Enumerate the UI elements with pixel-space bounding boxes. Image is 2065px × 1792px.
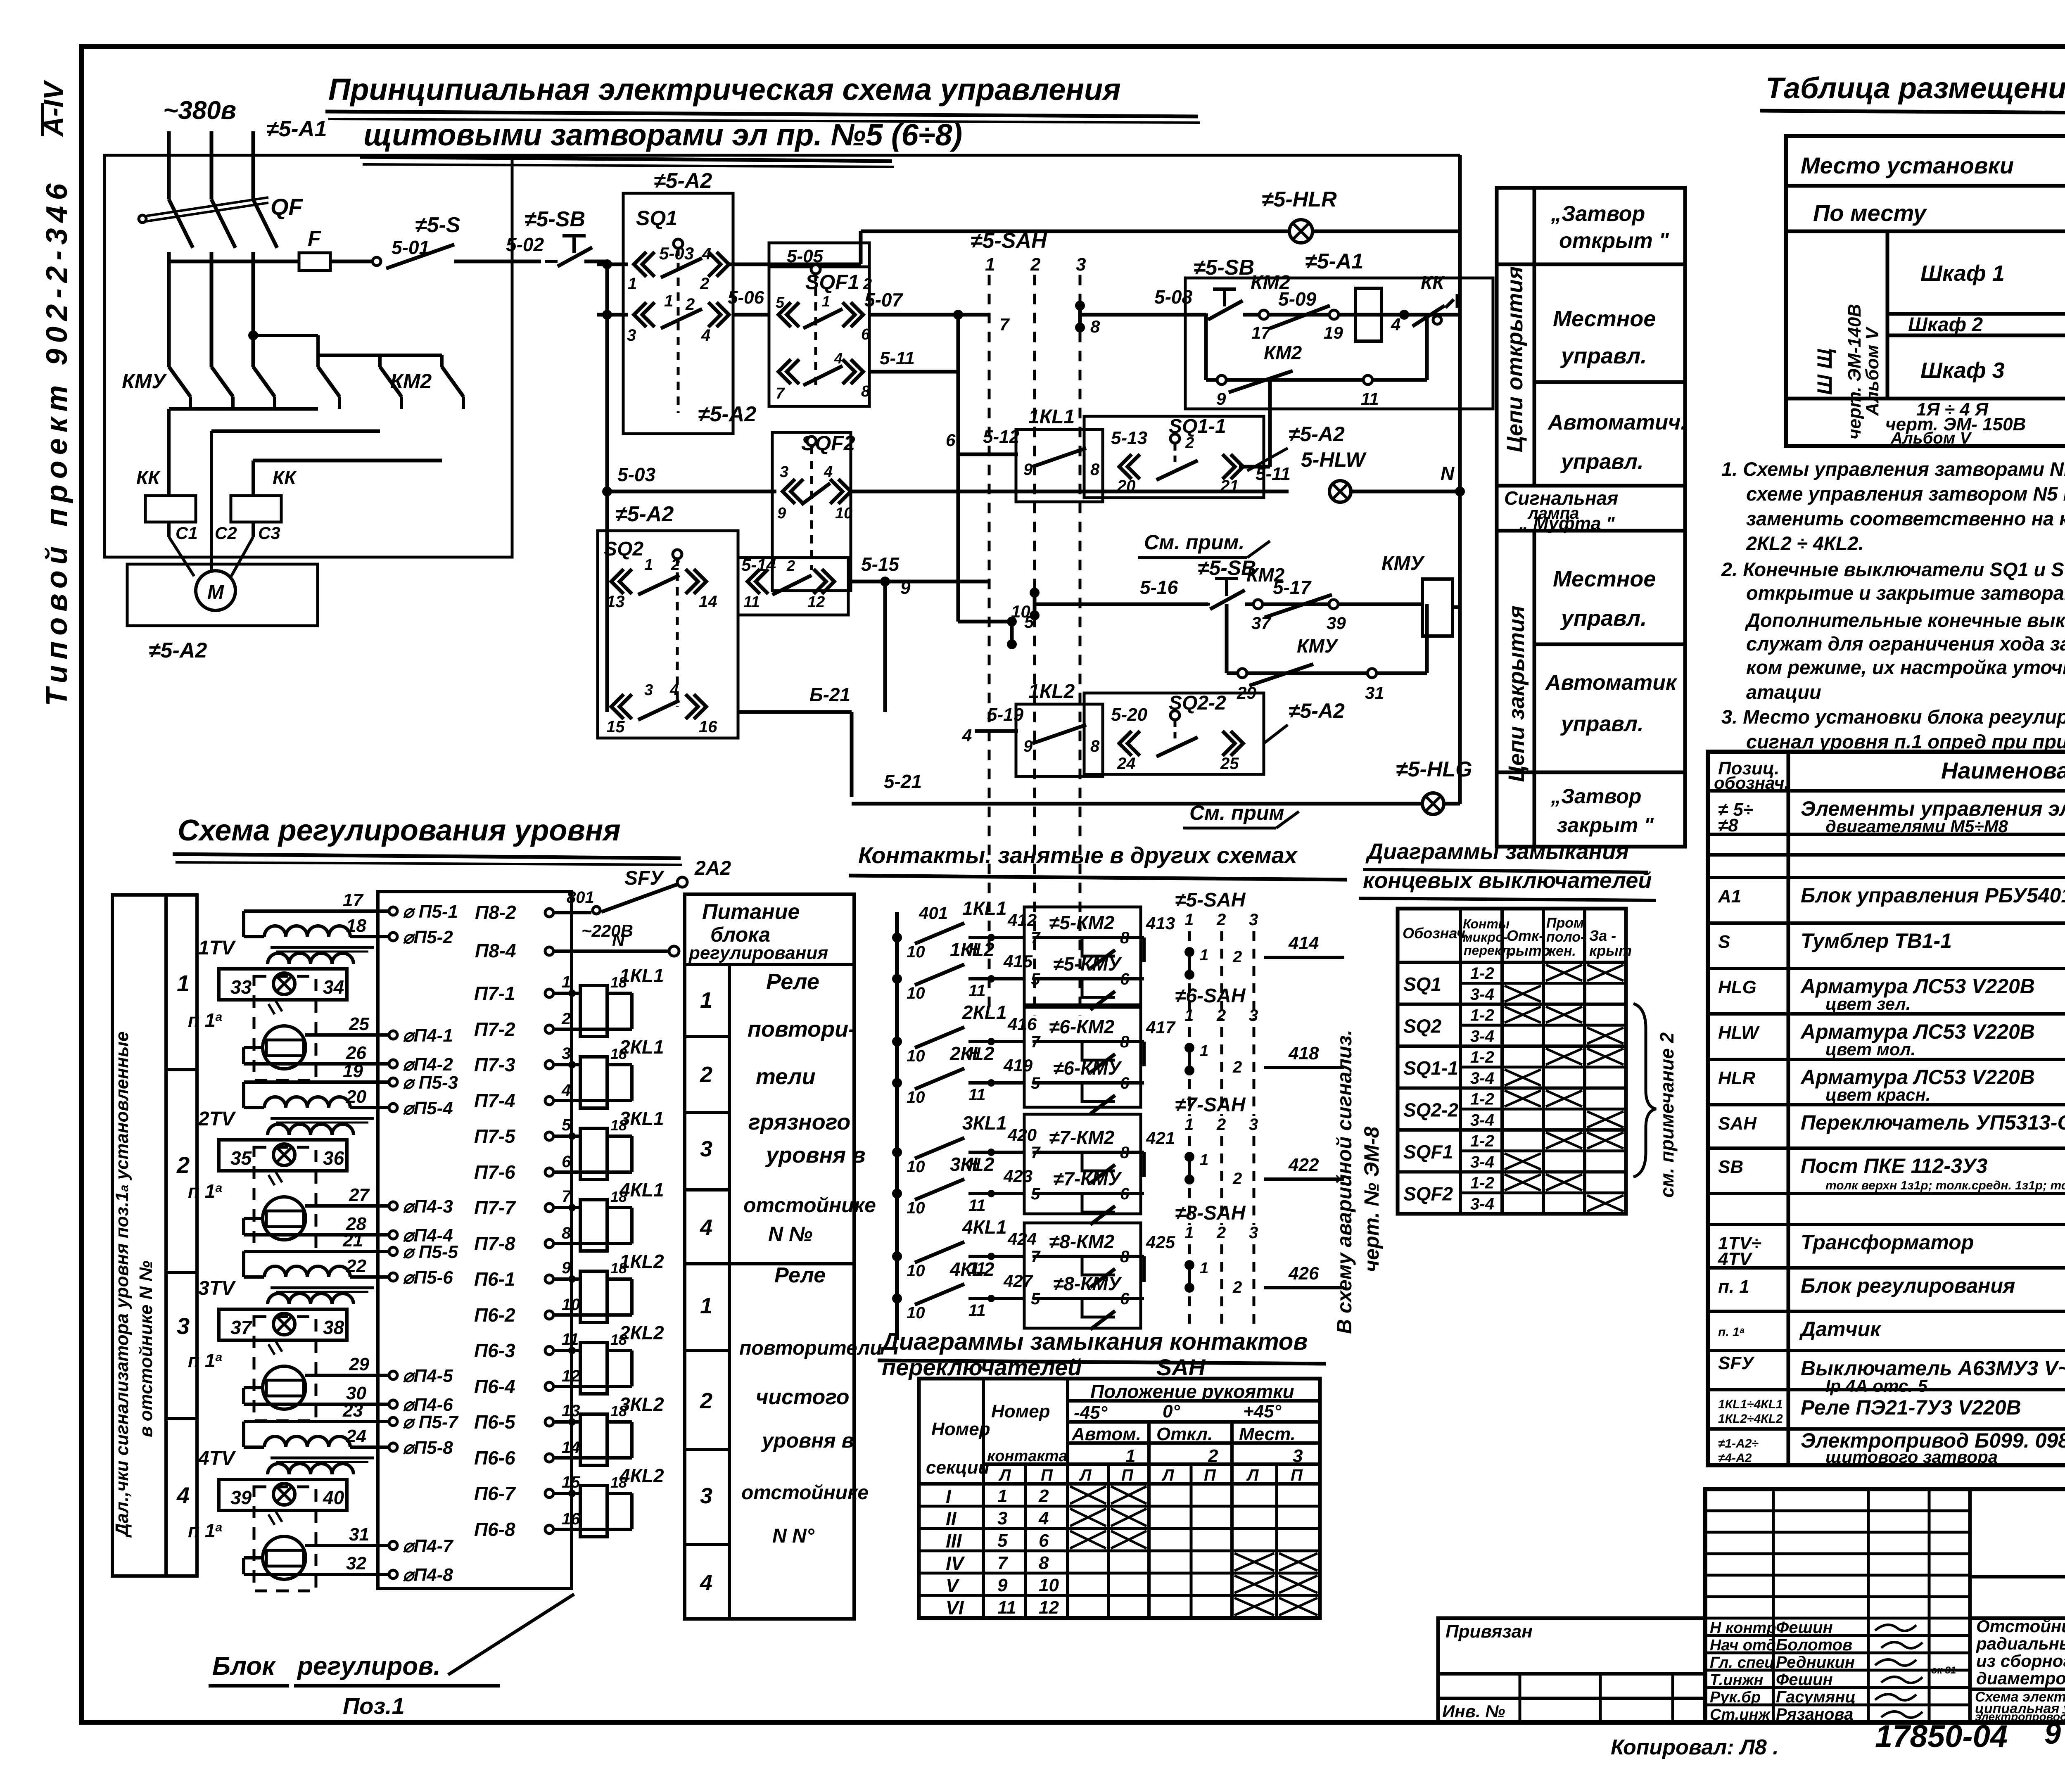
svg-text:За -: За - [1589, 927, 1616, 944]
svg-text:НLG: НLG [1718, 977, 1756, 997]
svg-text:КМУ: КМУ [1381, 553, 1425, 574]
svg-text:25: 25 [1220, 755, 1239, 773]
svg-text:2: 2 [1232, 1058, 1242, 1076]
svg-text:3КL2: 3КL2 [950, 1154, 995, 1175]
svg-text:Поз.1: Поз.1 [343, 1693, 405, 1719]
svg-text:1: 1 [1184, 1116, 1194, 1134]
svg-text:10: 10 [1039, 1575, 1059, 1595]
svg-text:39: 39 [230, 1487, 252, 1508]
svg-text:10: 10 [907, 1304, 925, 1322]
svg-text:„Затвор: „Затвор [1550, 785, 1641, 808]
equipment placement table [1786, 136, 2065, 446]
svg-text:≠5-A1: ≠5-A1 [1305, 249, 1363, 273]
svg-text:Мест.: Мест. [1239, 1424, 1296, 1444]
svg-text:П6-6: П6-6 [474, 1447, 515, 1469]
svg-text:37: 37 [230, 1317, 253, 1338]
wire left rail [605, 261, 609, 712]
svg-text:Схема регулирования уровня: Схема регулирования уровня [178, 814, 621, 847]
svg-text:П7-4: П7-4 [474, 1090, 515, 1111]
svg-text:1: 1 [985, 254, 995, 275]
svg-text:19: 19 [1324, 323, 1343, 342]
wire 5-09 with KMY contact [1243, 313, 1460, 317]
svg-text:черт. ЭМ-140В: черт. ЭМ-140В [1844, 304, 1865, 439]
svg-text:17: 17 [1251, 323, 1271, 342]
svg-text:тели: тели [756, 1064, 816, 1089]
svg-text:426: 426 [1288, 1263, 1319, 1284]
svg-text:5-07: 5-07 [864, 289, 903, 311]
svg-text:9: 9 [562, 1259, 571, 1277]
svg-text:КМ2: КМ2 [1264, 342, 1302, 363]
svg-text:в отстойнике N №: в отстойнике N № [136, 1260, 156, 1437]
svg-text:Типовой проект 902-2-346: Типовой проект 902-2-346 [40, 178, 74, 706]
svg-text:⌀П4-8: ⌀П4-8 [403, 1565, 453, 1585]
svg-text:Номер: Номер [991, 1401, 1050, 1422]
svg-text:Пост ПКЕ 112-3У3: Пост ПКЕ 112-3У3 [1801, 1154, 1988, 1177]
svg-text:11: 11 [743, 593, 760, 611]
svg-text:Автоматик: Автоматик [1545, 671, 1678, 695]
svg-text:3-4: 3-4 [1470, 985, 1494, 1004]
svg-text:SQ1-1: SQ1-1 [1403, 1057, 1458, 1079]
svg-text:16: 16 [699, 718, 717, 736]
svg-text:Автом.: Автом. [1071, 1424, 1141, 1444]
svg-text:4: 4 [1038, 1508, 1049, 1529]
svg-text:Отк-: Отк- [1507, 927, 1544, 944]
svg-text:18: 18 [346, 916, 366, 936]
svg-text:1-2: 1-2 [1470, 964, 1494, 983]
svg-text:схеме управления затвором N5: схеме управления затвором N5 Контакты ре… [1746, 483, 2065, 505]
svg-text:П: П [1041, 1466, 1053, 1484]
svg-text:3: 3 [1293, 1446, 1303, 1466]
wire 5-11 [851, 490, 1289, 494]
svg-text:37: 37 [1251, 613, 1271, 633]
svg-text:N №: N № [768, 1222, 812, 1246]
svg-text:9: 9 [2044, 1717, 2061, 1750]
svg-text:5: 5 [776, 294, 785, 311]
svg-text:2ТV: 2ТV [198, 1108, 236, 1130]
svg-text:регулиров.: регулиров. [297, 1652, 441, 1680]
svg-text:SQ1: SQ1 [636, 206, 677, 230]
svg-text:4: 4 [1391, 315, 1400, 334]
svg-text:4ТV: 4ТV [198, 1448, 236, 1469]
svg-text:регулирования: регулирования [688, 943, 828, 963]
svg-text:≠7-SАН: ≠7-SАН [1175, 1094, 1246, 1116]
svg-text:открыт ": открыт " [1559, 229, 1669, 253]
svg-text:SQ2: SQ2 [604, 538, 643, 560]
svg-text:Реле: Реле [774, 1263, 826, 1287]
lamp #5-HLR [1289, 220, 1313, 243]
svg-text:SFУ: SFУ [624, 867, 665, 889]
lamp #5-HLG [1422, 793, 1444, 814]
svg-text:П6-4: П6-4 [474, 1376, 515, 1397]
svg-text:Гасумянц: Гасумянц [1776, 1688, 1856, 1706]
svg-text:отстойнике: отстойнике [741, 1482, 869, 1504]
svg-text:Питание: Питание [702, 900, 800, 924]
svg-text:п. 1ᵃ: п. 1ᵃ [1718, 1325, 1745, 1339]
svg-text:≠5-НLG: ≠5-НLG [1396, 757, 1472, 781]
svg-text:1: 1 [664, 292, 673, 310]
svg-text:6: 6 [946, 430, 956, 450]
svg-text:7: 7 [997, 1553, 1009, 1573]
svg-text:С2: С2 [215, 523, 237, 543]
svg-text:черт. № ЭМ-8: черт. № ЭМ-8 [1360, 1126, 1383, 1272]
svg-text:3-4: 3-4 [1470, 1069, 1494, 1087]
svg-text:5-13: 5-13 [1111, 428, 1147, 448]
svg-text:≠4-А2: ≠4-А2 [1718, 1451, 1752, 1465]
svg-text:⌀П5-6: ⌀П5-6 [403, 1267, 453, 1288]
svg-text:40: 40 [323, 1487, 344, 1508]
svg-text:3-4: 3-4 [1470, 1195, 1494, 1213]
svg-text:3: 3 [1249, 1116, 1258, 1134]
svg-text:10: 10 [1011, 602, 1030, 621]
svg-text:+45°: +45° [1243, 1401, 1282, 1422]
svg-text:1КL1÷4КL1: 1КL1÷4КL1 [1718, 1398, 1783, 1411]
svg-text:417: 417 [1146, 1018, 1176, 1037]
svg-text:открытие и закрытие затвора.: открытие и закрытие затвора. [1746, 582, 2065, 604]
svg-text:П7-2: П7-2 [474, 1018, 515, 1040]
svg-text:грязного: грязного [748, 1110, 850, 1135]
svg-text:Дал.,чки сигнализатора уровн: Дал.,чки сигнализатора уровня поз.1а уст… [112, 1031, 132, 1538]
motor M [196, 571, 235, 610]
svg-text:420: 420 [1007, 1125, 1037, 1144]
brace see note 2 [1633, 1004, 1656, 1177]
svg-text:3: 3 [780, 463, 788, 481]
svg-text:4ТV: 4ТV [1718, 1249, 1753, 1269]
svg-text:служат для ограничения хода: служат для ограничения хода затвора в ав… [1746, 633, 2065, 655]
svg-text:3: 3 [1249, 1224, 1258, 1242]
svg-text:≠8-SАН: ≠8-SАН [1175, 1202, 1246, 1224]
svg-text:SАН: SАН [1156, 1354, 1206, 1380]
svg-text:~380в: ~380в [163, 96, 236, 125]
svg-text:Л: Л [1161, 1466, 1175, 1484]
svg-text:≠5-А2: ≠5-А2 [149, 638, 207, 662]
svg-text:двигателями М5÷М8: двигателями М5÷М8 [1825, 816, 2008, 836]
switch SQF1 [769, 243, 869, 406]
relay contact 1KL1 [1016, 430, 1103, 502]
svg-text:КК: КК [1421, 272, 1445, 293]
wire 5-12 [958, 453, 1018, 456]
svg-text:N N°: N N° [772, 1525, 815, 1547]
limit switch SQ2 [598, 531, 738, 738]
svg-text:Положение рукоятки: Положение рукоятки [1090, 1381, 1294, 1402]
svg-text:⌀П4-7: ⌀П4-7 [403, 1536, 454, 1556]
svg-text:3: 3 [1249, 1006, 1258, 1025]
svg-text:3: 3 [1249, 911, 1258, 929]
svg-text:Местное: Местное [1553, 306, 1656, 331]
svg-text:36: 36 [323, 1147, 344, 1169]
svg-text:12: 12 [1039, 1597, 1059, 1618]
svg-text:Ш Щ: Ш Щ [1813, 349, 1836, 395]
svg-text:≠5-А2: ≠5-А2 [654, 169, 712, 193]
push button #5-SB close [1215, 577, 1238, 580]
svg-text:5-16: 5-16 [1140, 577, 1178, 598]
svg-text:413: 413 [1146, 914, 1175, 933]
regulator block connector box [378, 892, 572, 1588]
svg-text:П6-8: П6-8 [474, 1519, 515, 1540]
svg-text:13: 13 [562, 1402, 580, 1420]
svg-text:из сборного ж/б: из сборного ж/б [1976, 1651, 2065, 1671]
svg-text:3: 3 [627, 326, 636, 344]
svg-text:≠5-А2: ≠5-А2 [615, 502, 674, 526]
svg-text:21: 21 [342, 1230, 363, 1251]
svg-text:QF: QF [271, 194, 304, 220]
svg-text:11: 11 [968, 1086, 986, 1104]
svg-text:≠7-КМ2: ≠7-КМ2 [1049, 1127, 1115, 1148]
svg-text:34: 34 [323, 976, 344, 998]
svg-text:2: 2 [685, 295, 695, 313]
svg-text:2: 2 [786, 557, 795, 574]
svg-text:⌀П4-3: ⌀П4-3 [403, 1196, 453, 1217]
svg-text:≠5-А2: ≠5-А2 [698, 402, 756, 426]
svg-text:обознач.: обознач. [1714, 773, 1789, 793]
svg-text:15: 15 [562, 1473, 580, 1491]
svg-text:8: 8 [1090, 317, 1100, 336]
svg-text:уровня в: уровня в [761, 1429, 854, 1452]
svg-text:Шкаф 1: Шкаф 1 [1920, 261, 2005, 286]
svg-text:НLW: НLW [1718, 1023, 1760, 1043]
svg-text:5: 5 [562, 1116, 571, 1134]
svg-text:≠5-КМ2: ≠5-КМ2 [1049, 912, 1115, 933]
limit switch SQ1 [623, 193, 733, 434]
thermal contact KK [1412, 306, 1445, 326]
svg-text:концевых выключателей: концевых выключателей [1363, 868, 1652, 893]
svg-text:заменить соответственно на: заменить соответственно на контакты реле… [1746, 508, 2065, 529]
svg-text:1. Схемы управления затворами: 1. Схемы управления затворами NN6÷8 анал… [1721, 458, 2065, 480]
svg-text:перекл.: перекл. [1464, 943, 1514, 958]
fuse F [299, 253, 330, 271]
svg-text:414: 414 [1288, 933, 1319, 953]
svg-text:крыт: крыт [1589, 942, 1632, 959]
svg-text:6: 6 [861, 326, 870, 343]
switch SQF2 [772, 432, 851, 591]
svg-text:П7-5: П7-5 [474, 1125, 516, 1147]
svg-text:1-2: 1-2 [1470, 1132, 1494, 1150]
svg-text:17: 17 [343, 890, 364, 910]
svg-text:≠5-А2: ≠5-А2 [1289, 422, 1345, 446]
svg-text:„ Муфта ": „ Муфта " [1519, 513, 1615, 534]
svg-text:4КL2: 4КL2 [619, 1465, 664, 1486]
svg-text:I: I [946, 1486, 952, 1507]
wire 5-16 [1035, 603, 1208, 606]
svg-text:С1: С1 [176, 523, 198, 543]
box #5-A1 control [1185, 278, 1493, 409]
svg-text:20: 20 [346, 1087, 366, 1107]
svg-text:15: 15 [606, 718, 625, 736]
svg-text:Блок управления РБУ5401-03А2: Блок управления РБУ5401-03А2Л [1801, 884, 2065, 907]
svg-text:16: 16 [562, 1510, 580, 1528]
svg-text:1: 1 [1184, 1224, 1194, 1242]
svg-text:4: 4 [669, 681, 679, 699]
svg-text:Принципиальная электрическая с: Принципиальная электрическая схема управ… [328, 72, 1121, 107]
svg-text:32: 32 [346, 1553, 366, 1574]
svg-text:⌀ П5-3: ⌀ П5-3 [403, 1073, 458, 1093]
svg-text:25: 25 [349, 1014, 369, 1034]
wire B-21 [738, 710, 852, 714]
svg-text:С3: С3 [258, 523, 280, 543]
svg-text:SQF1: SQF1 [1403, 1141, 1453, 1163]
svg-text:Л: Л [998, 1466, 1011, 1484]
svg-text:5-20: 5-20 [1111, 705, 1148, 725]
svg-text:2: 2 [1216, 1224, 1226, 1242]
svg-text:S: S [1718, 932, 1730, 952]
svg-text:1КL2: 1КL2 [619, 1251, 664, 1272]
svg-text:IV: IV [946, 1552, 965, 1574]
svg-text:1-2: 1-2 [1470, 1090, 1494, 1108]
svg-text:≠8-КМ2: ≠8-КМ2 [1049, 1231, 1115, 1252]
svg-text:10: 10 [562, 1296, 580, 1314]
svg-text:0°: 0° [1163, 1401, 1180, 1422]
svg-text:1: 1 [700, 988, 712, 1013]
svg-text:Автоматич.: Автоматич. [1547, 411, 1687, 434]
svg-text:5-15: 5-15 [861, 553, 900, 575]
svg-text:9: 9 [900, 578, 911, 598]
svg-text:Откл.: Откл. [1156, 1424, 1213, 1444]
svg-text:П7-3: П7-3 [474, 1054, 515, 1075]
svg-text:29: 29 [349, 1354, 369, 1374]
svg-text:39: 39 [1327, 613, 1346, 633]
svg-text:⌀ П5-7: ⌀ П5-7 [403, 1412, 459, 1432]
svg-text:424: 424 [1007, 1229, 1037, 1248]
svg-text:П: П [1121, 1466, 1134, 1484]
svg-text:4: 4 [700, 1215, 712, 1240]
svg-text:4: 4 [834, 350, 843, 367]
svg-text:1: 1 [644, 556, 653, 574]
svg-text:SВ: SВ [1718, 1157, 1743, 1177]
svg-text:⌀П4-5: ⌀П4-5 [403, 1366, 453, 1386]
motor box #5-A2 [127, 564, 318, 626]
contact groups KL with KM boxes [892, 933, 902, 942]
svg-text:2: 2 [176, 1152, 190, 1178]
svg-text:3ТV: 3ТV [198, 1277, 236, 1299]
svg-text:3КL1: 3КL1 [619, 1108, 664, 1129]
svg-text:1: 1 [1125, 1446, 1135, 1466]
svg-text:3КL1: 3КL1 [962, 1112, 1007, 1134]
svg-text:3: 3 [562, 1044, 571, 1063]
svg-text:толк верхн 1з1р; толк.средн.: толк верхн 1з1р; толк.средн. 1з1р; толк.… [1825, 1179, 2065, 1192]
svg-text:⌀П4-1: ⌀П4-1 [403, 1025, 453, 1046]
svg-text:31: 31 [349, 1524, 369, 1545]
svg-text:Привязан: Привязан [1445, 1621, 1533, 1642]
svg-text:П7-7: П7-7 [474, 1197, 516, 1218]
svg-text:Шкаф 2: Шкаф 2 [1908, 314, 1983, 336]
svg-text:8: 8 [1090, 737, 1100, 755]
svg-text:12: 12 [807, 593, 825, 611]
svg-text:9: 9 [1023, 460, 1033, 479]
svg-text:В схему аварийной сигнализ.: В схему аварийной сигнализ. [1333, 1030, 1356, 1334]
svg-text:Датчик: Датчик [1799, 1317, 1882, 1341]
svg-text:1: 1 [822, 293, 830, 310]
svg-text:КК: КК [273, 467, 297, 488]
svg-text:419: 419 [1003, 1056, 1033, 1075]
svg-text:П: П [1291, 1466, 1303, 1484]
svg-text:F: F [308, 227, 321, 251]
svg-text:1: 1 [1184, 1006, 1194, 1025]
svg-text:Контакты. занятые в других схе: Контакты. занятые в других схемах [858, 842, 1298, 868]
svg-text:Номер: Номер [931, 1419, 990, 1439]
svg-text:4КL1: 4КL1 [619, 1179, 664, 1201]
svg-text:VI: VI [946, 1597, 964, 1619]
svg-text:14: 14 [699, 593, 717, 611]
svg-text:4: 4 [824, 463, 833, 481]
svg-text:19: 19 [343, 1061, 363, 1081]
svg-text:1: 1 [997, 1486, 1007, 1506]
svg-text:2: 2 [1232, 948, 1242, 966]
svg-text:5: 5 [997, 1531, 1008, 1551]
svg-text:См. прим.: См. прим. [1144, 531, 1244, 554]
svg-text:2А2: 2А2 [694, 857, 731, 879]
svg-text:Альбом V: Альбом V [1890, 429, 1972, 447]
wire KM2 self-hold [1206, 378, 1427, 382]
svg-text:≠8: ≠8 [1718, 815, 1738, 835]
switch SQ2 second section [738, 558, 848, 615]
svg-text:2КL2 ÷ 4КL2.: 2КL2 ÷ 4КL2. [1746, 532, 1864, 554]
svg-text:1: 1 [1200, 947, 1208, 964]
svg-text:11: 11 [1361, 389, 1379, 408]
svg-text:2: 2 [1216, 911, 1226, 929]
svg-text:11: 11 [968, 1196, 986, 1215]
svg-text:1-2: 1-2 [1470, 1006, 1494, 1025]
svg-text:1КL1: 1КL1 [1028, 406, 1075, 428]
svg-text:Б-21: Б-21 [809, 684, 850, 705]
svg-text:10: 10 [907, 1262, 925, 1280]
svg-text:Iр 4А отс. 5: Iр 4А отс. 5 [1825, 1376, 1927, 1396]
svg-text:2: 2 [1185, 434, 1194, 452]
svg-text:N: N [1441, 463, 1455, 484]
wire top with lamp [861, 230, 1288, 233]
wire 5-03 row [597, 263, 628, 266]
svg-text:⌀ П5-1: ⌀ П5-1 [403, 902, 458, 922]
svg-text:418: 418 [1288, 1043, 1319, 1063]
svg-text:10: 10 [835, 505, 852, 522]
svg-text:≠5-КМУ: ≠5-КМУ [1053, 953, 1123, 975]
svg-text:1: 1 [1200, 1151, 1208, 1169]
svg-text:5-03: 5-03 [617, 464, 655, 485]
svg-text:3-4: 3-4 [1470, 1111, 1494, 1129]
svg-text:1: 1 [628, 275, 637, 293]
svg-text:А1: А1 [1718, 886, 1741, 907]
svg-text:≠5-SB: ≠5-SB [1194, 256, 1254, 280]
svg-text:п. 1: п. 1 [1718, 1277, 1749, 1297]
svg-text:Диаграммы замыкания: Диаграммы замыкания [1365, 839, 1629, 864]
svg-text:1: 1 [700, 1294, 712, 1318]
svg-text:≠5-SАН: ≠5-SАН [1175, 889, 1246, 911]
svg-text:П8-4: П8-4 [475, 940, 516, 961]
wire 5-19 [975, 729, 1018, 733]
svg-text:14: 14 [562, 1438, 580, 1457]
svg-text:23: 23 [342, 1400, 363, 1421]
svg-text:4: 4 [700, 1570, 712, 1595]
svg-text:⌀ П5-5: ⌀ П5-5 [403, 1242, 458, 1262]
svg-text:2: 2 [1232, 1278, 1242, 1296]
svg-text:425: 425 [1146, 1232, 1175, 1252]
svg-text:9: 9 [777, 505, 786, 522]
svg-text:401: 401 [919, 903, 948, 923]
svg-text:По месту: По месту [1813, 200, 1927, 226]
svg-text:26: 26 [346, 1043, 366, 1063]
svg-text:6: 6 [1039, 1531, 1049, 1551]
svg-text:цвет красн.: цвет красн. [1825, 1085, 1931, 1104]
svg-text:уровня в: уровня в [765, 1143, 866, 1168]
svg-text:1КL1: 1КL1 [962, 897, 1007, 919]
svg-text:17850-04: 17850-04 [1875, 1719, 2008, 1754]
svg-text:Наименование: Наименование [1941, 757, 2065, 783]
svg-text:12: 12 [562, 1367, 580, 1385]
svg-text:5-14: 5-14 [741, 555, 776, 574]
svg-text:П6-7: П6-7 [474, 1483, 516, 1504]
title block stamp [1705, 1489, 2065, 1722]
svg-text:2КL1: 2КL1 [619, 1036, 664, 1058]
wire 5-07 [869, 313, 958, 317]
svg-text:4: 4 [176, 1482, 190, 1508]
